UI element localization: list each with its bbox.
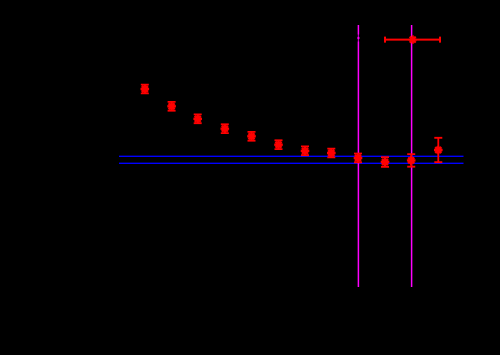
top point with horizontal error bar — [385, 35, 440, 43]
data point 4 — [221, 124, 230, 133]
data point 1 — [141, 85, 150, 94]
data point 12 — [434, 138, 443, 162]
upper blue horizontal line — [119, 155, 464, 157]
data point 2 — [167, 102, 176, 111]
data point 6 — [274, 140, 283, 149]
right magenta vertical line — [411, 25, 413, 287]
data point 10 — [381, 157, 390, 167]
data point 9 — [354, 154, 363, 163]
left magenta vertical line — [357, 25, 359, 287]
data point 3 — [193, 114, 202, 123]
data point 11 — [407, 154, 416, 167]
data point 7 — [301, 146, 310, 155]
data point 5 — [247, 132, 256, 141]
data point 8 — [327, 149, 336, 158]
lower blue horizontal line — [119, 162, 464, 164]
